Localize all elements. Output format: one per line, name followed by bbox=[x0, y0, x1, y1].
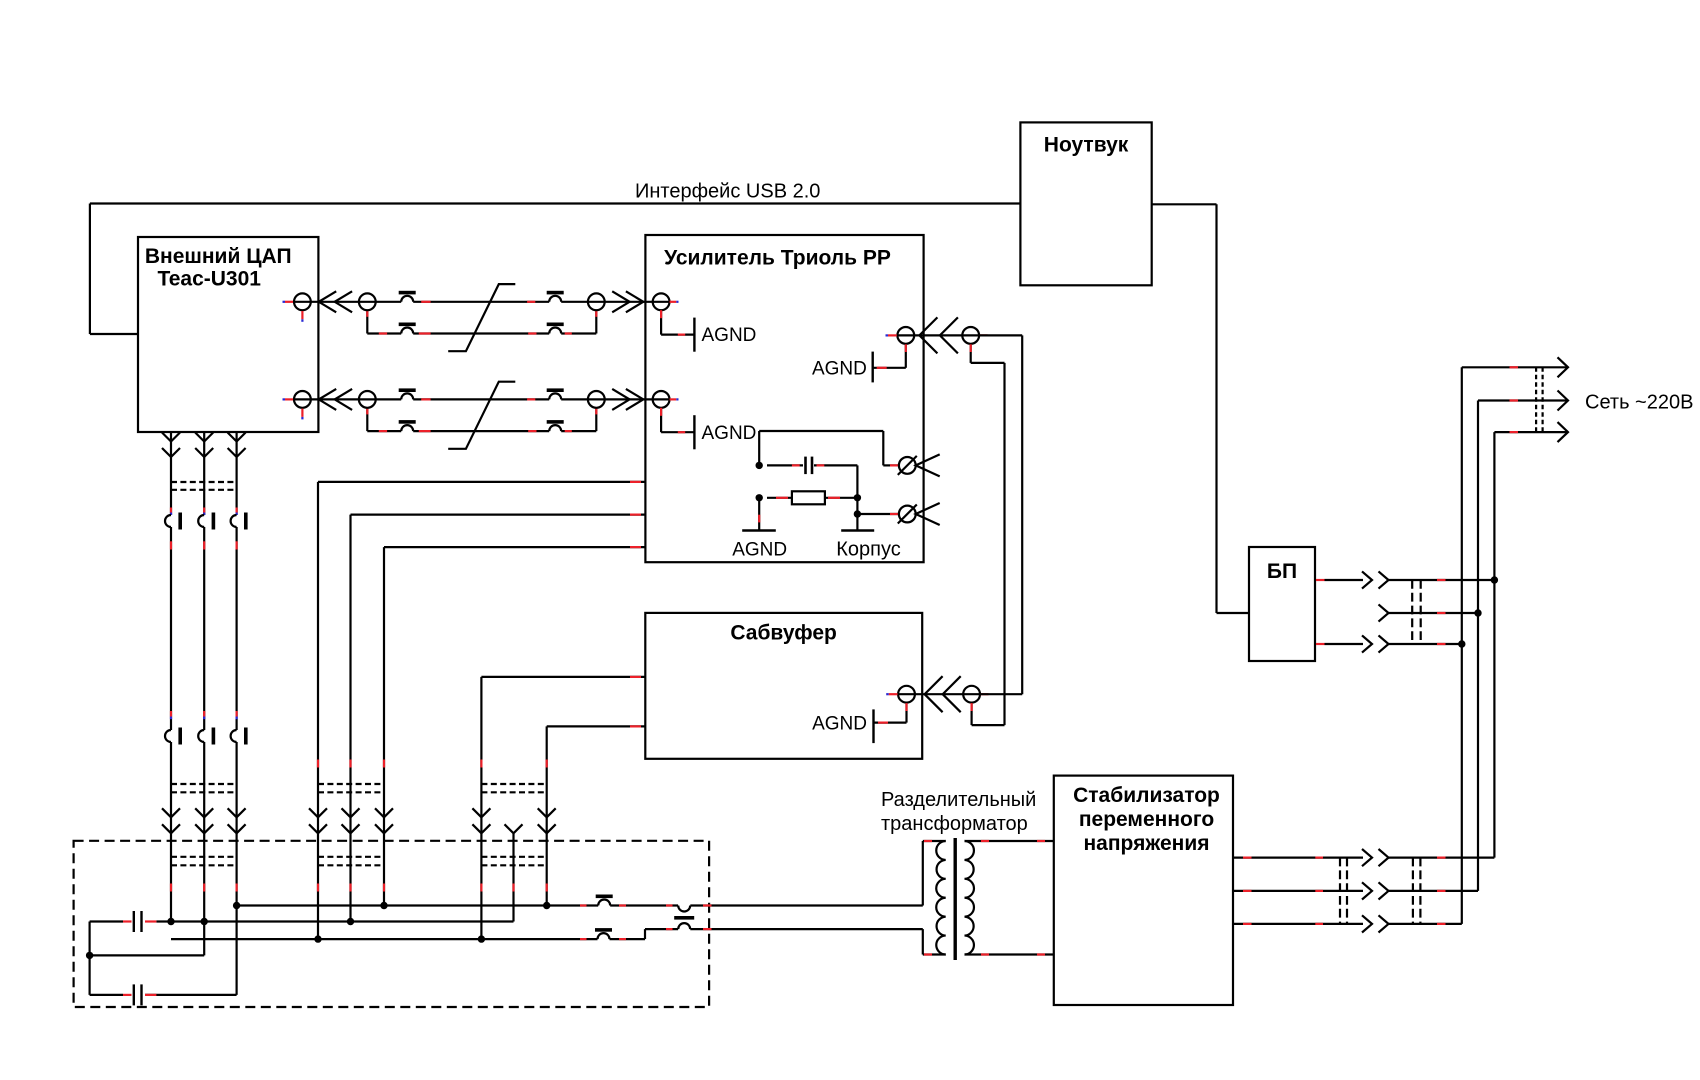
transformer T1 primary lead top bbox=[922, 841, 924, 906]
shield tick inside junction box on wire x=236.6 bbox=[236, 884, 238, 892]
svg-text:Ноутвук: Ноутвук bbox=[1044, 134, 1129, 157]
speaker wire L3 from DAC bbox=[236, 432, 238, 995]
ferrite clamp on centre conductor right run 2 bbox=[547, 388, 564, 392]
connector hump pair one on wire x=236.6 bbox=[236, 508, 238, 513]
transformer T1 secondary lead top bbox=[965, 840, 1054, 842]
plug arrows below DAC on wire x=171 bbox=[162, 433, 180, 442]
capacitor C3 (left bottom) bbox=[90, 994, 123, 996]
shield tick inside junction box on wire x=350.5 bbox=[349, 884, 351, 892]
terminal circle with slash upper bbox=[899, 457, 916, 474]
shield tick above junction box on wire x=546.7 bbox=[546, 760, 548, 768]
transformer T1 primary winding bbox=[936, 841, 945, 955]
cable bundle marker below DAC (dashed) bbox=[171, 481, 237, 483]
plug arrows below DAC on wire x=204.2 bbox=[195, 433, 213, 442]
capacitor C1 amp (AGND to chassis) bbox=[767, 464, 803, 466]
shield ticks after stabilizer cable bbox=[1437, 856, 1446, 858]
box Внешний ЦАП Teac-U301 (external DAC) bbox=[138, 237, 318, 432]
svg-text:Сеть ~220В: Сеть ~220В bbox=[1585, 392, 1693, 414]
wire laptop to power supply БП bbox=[1152, 203, 1217, 205]
connector hump pair one on wire x=171 bbox=[170, 508, 172, 513]
shield tick above junction box on wire x=384 bbox=[383, 760, 385, 768]
junction dot net N1 at БП bottom output bbox=[1458, 640, 1465, 647]
plug arrows below DAC on wire x=236.6 bbox=[228, 433, 246, 442]
junction dot net N3 at БП top output bbox=[1491, 576, 1498, 583]
svg-text:БП: БП bbox=[1267, 560, 1297, 583]
cable direction chevrons at amplifier side run 1 bbox=[612, 291, 629, 312]
wire chassis node down bbox=[856, 498, 858, 531]
cable bundle markers above junction box left group bbox=[171, 783, 237, 785]
ground symbol AGND subwoofer bbox=[872, 709, 874, 743]
amplifier speaker output wire 2 bbox=[351, 513, 646, 515]
bus B (signal bus from capacitors) bbox=[156, 920, 513, 922]
amplifier speaker output wire 3 bbox=[384, 546, 645, 548]
shield ticks on coax run run 2 bbox=[421, 398, 430, 400]
junction dot resistor right bbox=[854, 494, 861, 501]
wire resistor node down to AGND bbox=[758, 498, 760, 531]
ground symbol AGND amp input 2 bbox=[693, 415, 695, 449]
wire mains lead 3 with arrow bbox=[1494, 431, 1568, 433]
plug arrows above junction box on wire x=236.6 bbox=[228, 808, 246, 817]
svg-text:Интерфейс USB 2.0: Интерфейс USB 2.0 bbox=[635, 181, 820, 203]
subwoofer speaker wire 1 bbox=[481, 676, 645, 678]
connector hump pair one on wire x=204.2 bbox=[203, 508, 205, 513]
svg-text:Teac-U301: Teac-U301 bbox=[157, 268, 261, 291]
ferrite clamp on bus A bbox=[596, 895, 613, 899]
wire net N2 vertical (БП middle to middle mains arrow) bbox=[1477, 401, 1479, 891]
shield wire into subwoofer cable bbox=[970, 703, 972, 725]
ferrite clamp on shield left run 2 bbox=[399, 420, 416, 424]
junction dots on bus C bbox=[314, 935, 321, 942]
speaker wire L2 from DAC bbox=[203, 432, 205, 955]
transformer T1 primary lead bottom bbox=[922, 929, 924, 954]
wire USB interface from DAC to laptop bbox=[90, 202, 1021, 204]
ground wire from amp input jack 2 to AGND bbox=[660, 408, 662, 432]
svg-text:напряжения: напряжения bbox=[1084, 832, 1210, 855]
svg-text:AGND: AGND bbox=[812, 359, 867, 380]
connector hump pair two on wire x=236.6 bbox=[236, 711, 238, 717]
junction dot capacitor top left bbox=[756, 462, 763, 469]
shield tick inside junction box on wire x=204.2 bbox=[203, 884, 205, 892]
cable bundle markers above junction box right group bbox=[481, 783, 546, 785]
shield tick inside junction box on wire x=171 bbox=[170, 884, 172, 892]
transformer T1 core bbox=[954, 838, 957, 960]
connector jack circle at amplifier input run 2 bbox=[653, 391, 670, 408]
shield tick above junction box on wire x=318 bbox=[317, 760, 319, 768]
ground symbol AGND amp line output bbox=[872, 352, 874, 383]
svg-text:AGND: AGND bbox=[812, 713, 867, 734]
connector plug circle at DAC output run 2 bbox=[294, 391, 311, 408]
cable bundle marker at stabilizer outputs (dashed) bbox=[1412, 858, 1414, 924]
cable bundle marker for mains leads (dashed) bbox=[1535, 367, 1537, 432]
shield tick inside junction box on wire x=384 bbox=[383, 884, 385, 892]
transformer T1 secondary winding bbox=[965, 841, 974, 955]
shield ticks on coax run run 1 bbox=[421, 301, 430, 303]
wire net N3 vertical (БП top output to bottom mains arrow) bbox=[1493, 432, 1495, 857]
junction dot chassis tap bbox=[854, 510, 861, 517]
wire from AGND node to terminal network bbox=[758, 431, 760, 465]
svg-text:трансформатор: трансформатор bbox=[881, 813, 1028, 835]
twisted pair slash symbol run 1 bbox=[448, 284, 515, 351]
ferrite clamp on shield right run 2 bbox=[547, 420, 564, 424]
shield drain wire into junction box bbox=[512, 834, 514, 922]
coax shield conductor run 2 bbox=[366, 408, 368, 431]
wire mains lead 1 with arrow bbox=[1462, 366, 1568, 368]
box Ноутвук (laptop) bbox=[1020, 122, 1151, 285]
cable end circle right run 2 bbox=[588, 391, 605, 408]
ferrite clamp on centre conductor left run 2 bbox=[399, 388, 416, 392]
open fork contact upper bbox=[916, 454, 940, 476]
amplifier speaker output wire 1 bbox=[318, 481, 645, 483]
terminal circle with slash lower bbox=[899, 506, 916, 523]
transformer T1 secondary lead bottom bbox=[965, 953, 1054, 955]
connector jack circle amp line output bbox=[897, 327, 914, 344]
connector hump pair two on wire x=204.2 bbox=[203, 711, 205, 717]
cable end circle left run 2 bbox=[359, 391, 376, 408]
cable bundle marker at БП outputs (dashed) bbox=[1411, 580, 1413, 644]
cable bundle markers inside junction box right group bbox=[481, 856, 546, 858]
cable direction chevrons at amp line output bbox=[919, 317, 937, 353]
junction dots on bus B bbox=[167, 918, 174, 925]
connector plug circle at DAC output run 1 bbox=[294, 293, 311, 310]
svg-text:AGND: AGND bbox=[702, 325, 757, 346]
cable bundle markers above junction box middle group bbox=[318, 783, 384, 785]
cable direction chevrons at amplifier side run 2 bbox=[612, 389, 629, 410]
svg-text:Внешний ЦАП: Внешний ЦАП bbox=[145, 245, 292, 268]
connector jack circle at amplifier input run 1 bbox=[653, 293, 670, 310]
cable end circle right run 1 bbox=[588, 293, 605, 310]
shield ticks on bus A bbox=[580, 904, 587, 906]
cable end circle at subwoofer bbox=[963, 686, 980, 703]
ferrite clamp on bus A at exit (hump down) bbox=[678, 904, 690, 908]
cable direction chevrons at DAC side run 1 bbox=[319, 291, 336, 312]
ground symbol AGND amp internal bbox=[742, 529, 776, 532]
БП top output wire with connector chevrons bbox=[1325, 579, 1364, 581]
plug chevron on shield drain wire bbox=[505, 824, 523, 833]
box Сабвуфер (subwoofer) bbox=[645, 613, 922, 759]
ferrite clamp on bus C bbox=[595, 928, 612, 932]
БП bottom output wire with connector chevrons bbox=[1325, 643, 1364, 645]
plug arrows above junction box on wire x=481.4 bbox=[472, 808, 490, 817]
stabilizer output wire 1 bbox=[1233, 856, 1363, 858]
ground wire subwoofer jack to AGND bbox=[905, 703, 907, 723]
plug arrows above junction box on wire x=171 bbox=[162, 808, 180, 817]
svg-text:Усилитель Триоль РР: Усилитель Триоль РР bbox=[664, 247, 891, 270]
coax centre conductor run 2 bbox=[294, 398, 670, 400]
stabilizer output wire 2 bbox=[1233, 890, 1363, 892]
speaker wire L1 from DAC bbox=[170, 432, 172, 922]
plug arrows above junction box on wire x=204.2 bbox=[195, 808, 213, 817]
shield tick inside junction box on wire x=481.4 bbox=[480, 884, 482, 892]
wire chassis tap to terminal bbox=[857, 513, 899, 515]
ferrite clamp on shield right run 1 bbox=[547, 323, 564, 327]
box Усилитель Триоль РР (amplifier) bbox=[645, 235, 923, 562]
svg-text:переменного: переменного bbox=[1079, 808, 1214, 831]
plug arrows above junction box on wire x=318 bbox=[309, 808, 327, 817]
shield ticks on bus C bbox=[580, 938, 587, 940]
ferrite clamp on centre conductor right run 1 bbox=[547, 291, 564, 295]
open fork contact lower bbox=[916, 503, 940, 525]
bus A (ground bus to transformer primary top) bbox=[237, 904, 679, 906]
shield ticks after БП cable bbox=[1437, 579, 1446, 581]
box Стабилизатор переменного напряжения bbox=[1054, 776, 1233, 1005]
shield wire amp to subwoofer bbox=[970, 344, 972, 363]
junction box (dashed enclosure) bbox=[74, 841, 710, 1007]
cable bundle markers inside junction box left group bbox=[171, 856, 237, 858]
signal wire amp to subwoofer bbox=[897, 334, 1022, 336]
cable end circle amp line output bbox=[962, 327, 979, 344]
ground symbol Корпус (chassis) bbox=[841, 529, 874, 532]
wire mains lead 2 with arrow bbox=[1478, 399, 1568, 401]
stabilizer output wire 3 bbox=[1233, 923, 1363, 925]
ground wire from amp input jack 1 to AGND bbox=[660, 310, 662, 334]
junction dot left leg bbox=[86, 952, 93, 959]
wire L2 to left capacitor leg bbox=[90, 954, 205, 956]
ferrite clamp on bus C at exit bbox=[674, 916, 694, 920]
junction dot resistor left bbox=[756, 494, 763, 501]
twisted pair slash symbol run 2 bbox=[448, 382, 515, 449]
subwoofer speaker wire 2 bbox=[547, 725, 646, 727]
plug arrows above junction box on wire x=546.7 bbox=[538, 808, 556, 817]
shield tick inside junction box on wire x=546.7 bbox=[546, 884, 548, 892]
junction dots on bus A bbox=[233, 902, 240, 909]
svg-text:AGND: AGND bbox=[702, 423, 757, 444]
ferrite clamp on shield left run 1 bbox=[399, 323, 416, 327]
shield tick above junction box on wire x=350.5 bbox=[349, 760, 351, 768]
svg-text:AGND: AGND bbox=[732, 539, 787, 560]
coax centre conductor run 1 bbox=[294, 301, 670, 303]
box БП (power supply) bbox=[1249, 547, 1315, 661]
svg-text:Корпус: Корпус bbox=[836, 538, 901, 560]
svg-text:Сабвуфер: Сабвуфер bbox=[730, 622, 836, 645]
left vertical capacitor leg bbox=[88, 922, 90, 995]
wire net N1 vertical (БП bottom output to top mains arrow) bbox=[1461, 367, 1463, 924]
cable end circle left run 1 bbox=[359, 293, 376, 310]
signal wire into subwoofer cable bbox=[898, 693, 1023, 695]
ferrite clamp on centre conductor left run 1 bbox=[399, 291, 416, 295]
cable bundle marker before stabilizer connectors (dashed) bbox=[1339, 858, 1341, 924]
shield tick inside junction box on wire x=513.5 bbox=[512, 884, 514, 892]
cable direction chevrons at DAC side run 2 bbox=[319, 389, 336, 410]
connector hump pair two on wire x=171 bbox=[170, 711, 172, 717]
БП middle wire with connector chevron bbox=[1379, 604, 1389, 621]
ground wire amp line output to AGND bbox=[905, 344, 907, 368]
resistor R1 amp (AGND to chassis) bbox=[767, 497, 792, 499]
plug arrows above junction box on wire x=384 bbox=[375, 808, 393, 817]
svg-text:Стабилизатор: Стабилизатор bbox=[1073, 784, 1220, 807]
junction dot net N2 at БП middle bbox=[1474, 609, 1481, 616]
cable direction chevrons at subwoofer input bbox=[925, 676, 943, 712]
shield tick inside junction box on wire x=318 bbox=[317, 884, 319, 892]
coax shield conductor run 1 bbox=[366, 310, 368, 333]
connector jack circle subwoofer input bbox=[898, 686, 915, 703]
cable bundle markers inside junction box middle group bbox=[318, 856, 384, 858]
plug arrows above junction box on wire x=350.5 bbox=[342, 808, 360, 817]
shield tick above junction box on wire x=481.4 bbox=[480, 760, 482, 768]
capacitor C2 (left top) bbox=[90, 920, 123, 922]
bus C (to transformer primary bottom) bbox=[171, 938, 645, 940]
ground symbol AGND amp input 1 bbox=[693, 318, 695, 352]
svg-text:Разделительный: Разделительный bbox=[881, 789, 1036, 811]
